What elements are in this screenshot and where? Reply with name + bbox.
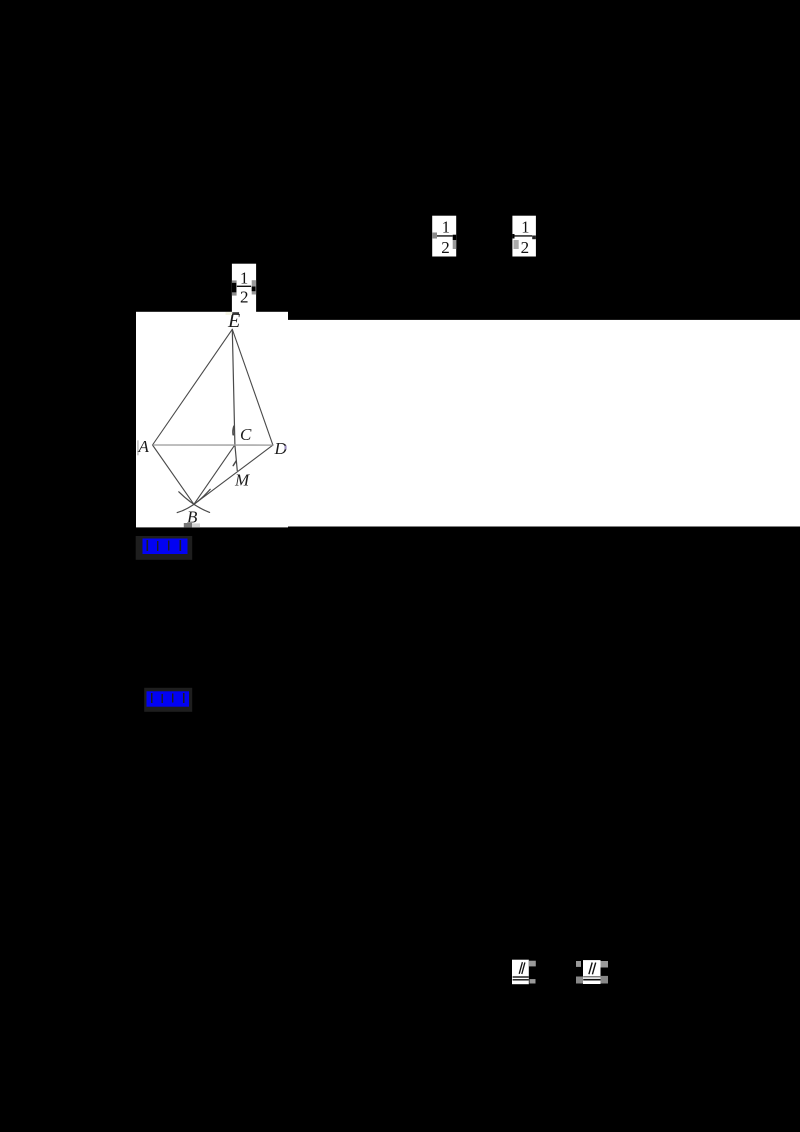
svg-text:2: 2 (240, 287, 249, 306)
svg-text:1: 1 (442, 217, 450, 236)
svg-text:C: C (240, 425, 252, 444)
svg-text:M: M (234, 470, 250, 489)
svg-text:1: 1 (521, 217, 529, 236)
svg-text:1: 1 (240, 268, 248, 287)
svg-text:2: 2 (521, 238, 530, 257)
svg-text:2: 2 (441, 238, 450, 257)
svg-text:A: A (138, 437, 150, 456)
